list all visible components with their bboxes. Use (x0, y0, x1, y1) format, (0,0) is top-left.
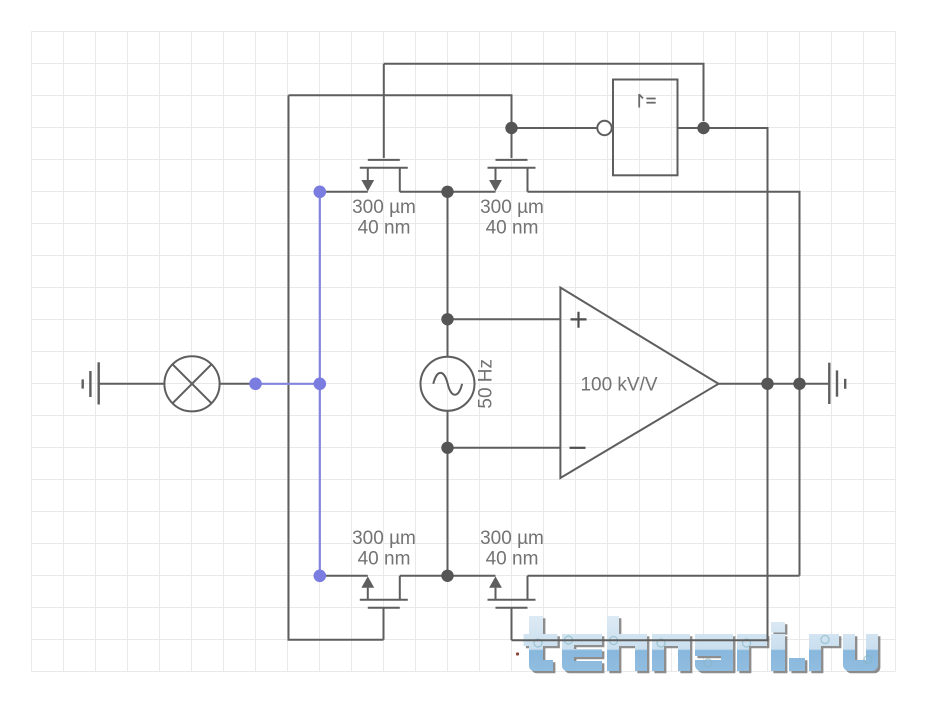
node blue dots (249, 186, 326, 583)
wire top rail right segment to right drop (528, 192, 800, 576)
watermark period (789, 658, 805, 671)
wire lamp to blue node (220, 383, 256, 385)
watermark letter n (652, 634, 690, 671)
watermark red speck (516, 652, 519, 655)
svg-text:300 µm: 300 µm (352, 197, 416, 218)
watermark tehnari.ru (516, 616, 881, 673)
svg-text:40 nm: 40 nm (358, 218, 411, 239)
node output B (793, 378, 805, 390)
blue selected net wires (256, 192, 320, 576)
svg-text:40 nm: 40 nm (358, 549, 411, 570)
watermark letter r (737, 634, 767, 671)
node M2 gate (505, 122, 517, 134)
wire blue vertical (319, 192, 321, 576)
wire center column bottom (447, 411, 449, 576)
watermark letter i (771, 634, 785, 671)
wire U1 input (512, 127, 598, 129)
wire left ground to lamp (99, 383, 165, 385)
watermark shadow (526, 618, 881, 673)
watermark i dot (771, 622, 785, 633)
ground GND2 (right) (829, 363, 845, 404)
node blue top (314, 186, 327, 199)
label U1 (mirrored =1) (639, 94, 656, 108)
node top feedback (697, 122, 709, 134)
node plus input (441, 313, 453, 325)
watermark letter e (562, 634, 602, 671)
op-amp U2 (560, 288, 718, 479)
wire top: M1 gate to node over gate U1 (384, 64, 704, 121)
wire second row: left loop top to M2 gate (289, 95, 512, 128)
transistor M1 (top-left NMOS) (360, 64, 408, 192)
watermark letter a (695, 634, 733, 671)
ground GND1 (left) (83, 362, 99, 404)
svg-text:300 µm: 300 µm (352, 528, 416, 549)
node output A (761, 378, 773, 390)
watermark letter t (524, 616, 558, 671)
wire op-amp plus input (448, 318, 561, 320)
wire left loop: down left side and to M3 gate (289, 95, 384, 640)
watermark letter r2 (809, 634, 839, 671)
watermark rivets (534, 636, 872, 668)
wire bottom rail left segment (320, 575, 368, 577)
lamp LMP1 (164, 356, 219, 411)
gate U1 (XNOR, mirrored) (597, 80, 677, 176)
wire bottom rail middle segment (400, 575, 496, 577)
wire center column top (447, 192, 449, 357)
watermark letter u (843, 634, 878, 671)
wire top rail middle segment (400, 191, 496, 193)
transistor M2 (top-right NMOS) (488, 128, 536, 192)
svg-text:50 Hz: 50 Hz (476, 359, 497, 409)
svg-text:100 kV/V: 100 kV/V (580, 375, 657, 396)
node top rail center (441, 186, 453, 198)
node minus input (441, 442, 453, 454)
wire U1 output to right vertical down to M4 gate (512, 128, 768, 640)
node lamp-net mid (314, 378, 327, 391)
svg-text:300 µm: 300 µm (480, 528, 544, 549)
wire op-amp minus input (448, 447, 561, 449)
transistor M4 (bottom-right NMOS) (488, 576, 536, 640)
wire op-amp output to ground (719, 383, 830, 385)
node junction dots (gray) (441, 122, 805, 582)
watermark letter h (607, 616, 647, 671)
wire bottom rail right segment (528, 575, 800, 577)
node lamp-net left (249, 378, 262, 391)
wire blue horizontal (256, 383, 320, 385)
source V1 (AC 50 Hz) (421, 357, 475, 411)
node bottom rail center (441, 570, 453, 582)
svg-text:40 nm: 40 nm (486, 549, 539, 570)
svg-text:300 µm: 300 µm (480, 197, 544, 218)
wire top rail left segment (320, 191, 368, 193)
transistor M3 (bottom-left NMOS) (360, 576, 408, 640)
node blue bottom (314, 570, 327, 583)
svg-text:40 nm: 40 nm (486, 218, 539, 239)
